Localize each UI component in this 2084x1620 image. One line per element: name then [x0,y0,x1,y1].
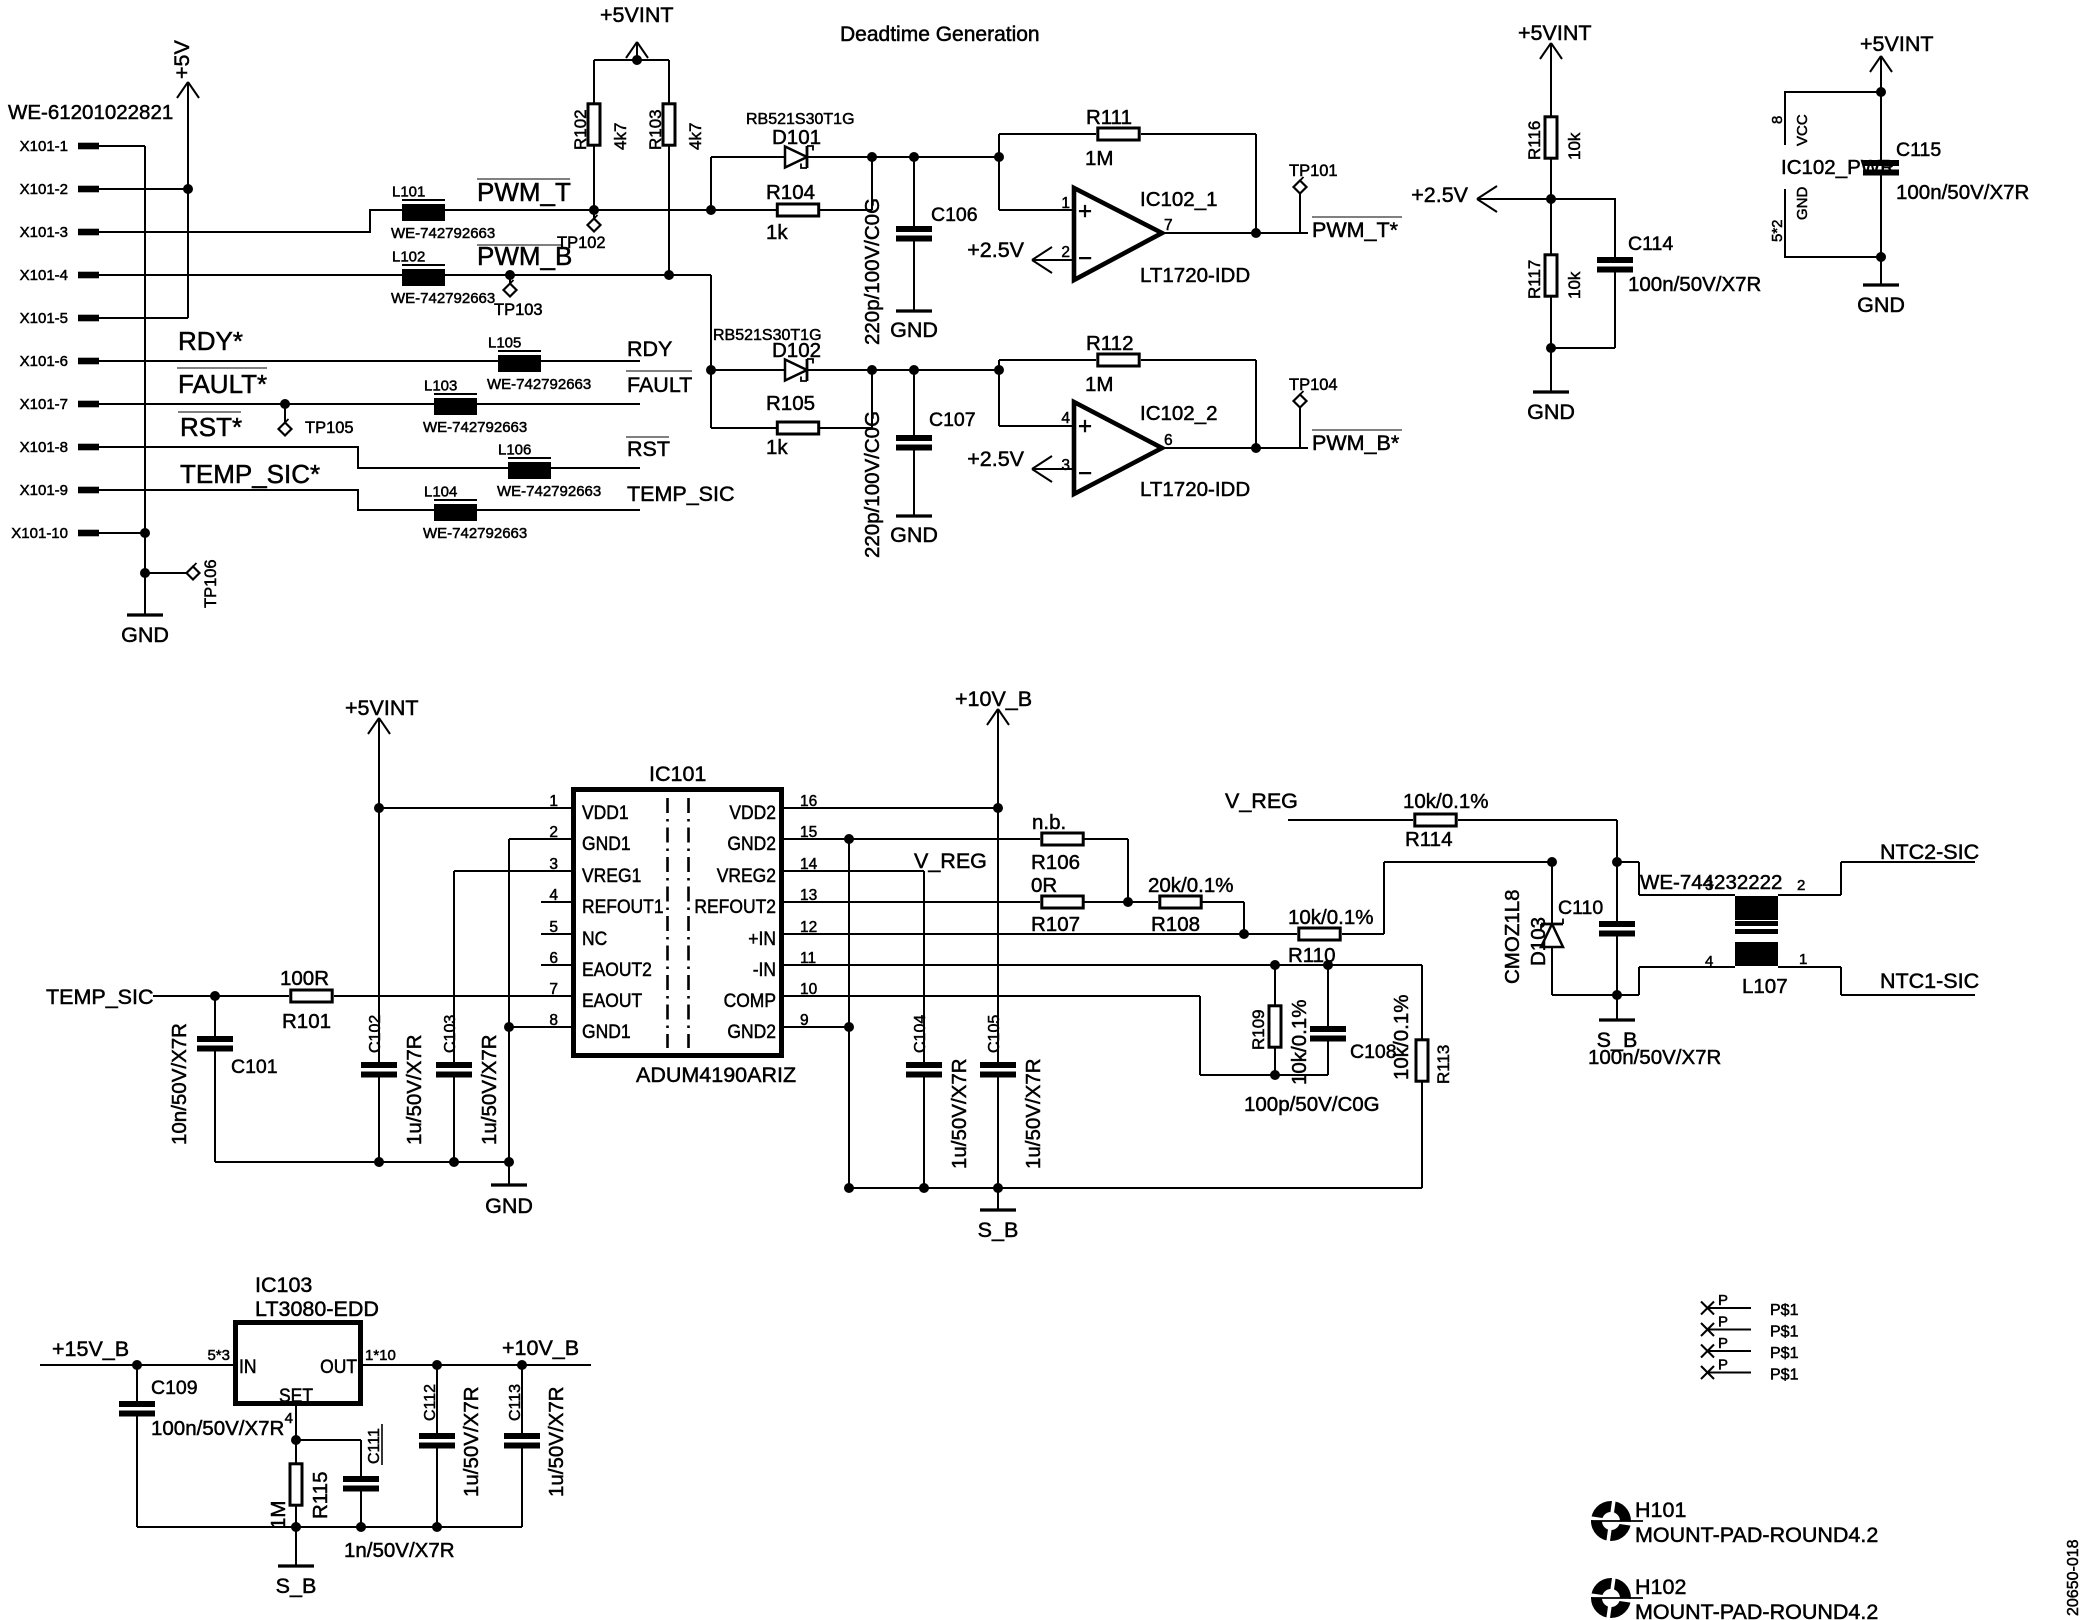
svg-text:V_REG: V_REG [914,849,987,873]
wire R110 up to sense rail [1342,862,1552,934]
svg-text:WE-742792663: WE-742792663 [391,290,495,307]
junction TP103 on PWM_B [505,270,515,280]
wire X101-1 to bus [99,145,145,147]
svg-text:20650-018: 20650-018 [2065,1539,2082,1616]
svg-text:X101-3: X101-3 [20,224,68,241]
svg-text:GND2: GND2 [727,834,776,855]
op-amp IC102_2 LT1720-IDD [1061,402,1250,501]
svg-text:VREG1: VREG1 [582,866,641,887]
test point TP101 [1289,162,1338,233]
svg-text:L104: L104 [424,484,457,501]
junction D103 on rail [1547,857,1557,867]
svg-text:IN: IN [239,1357,257,1378]
svg-text:X101-2: X101-2 [20,181,68,198]
net label TEMP_SIC out [627,482,735,506]
svg-text:10n/50V/X7R: 10n/50V/X7R [168,1023,191,1145]
wire pin11 -IN [784,964,1422,966]
junction VCC pin [1876,87,1886,97]
wire pin2 GND1 [509,838,571,840]
svg-text:TP104: TP104 [1289,376,1338,394]
junction GND pin node [1876,252,1886,262]
resistor R108 20k/0.1% [1148,874,1233,936]
IC102 power gate GND pin 5*2 [1769,187,1881,258]
wire to +input IC102_1 [999,157,1074,210]
wire S_B bus [849,1187,1422,1189]
svg-text:n.b.: n.b. [1032,811,1066,834]
svg-text:L103: L103 [424,378,457,395]
label ADUM4190ARIZ [636,1063,796,1087]
capacitor C104 1u/50V/X7R [906,871,971,1188]
wire pin14 VREG2 [784,870,924,872]
resistor R109 10k/0.1% [1249,965,1311,1085]
svg-text:GND: GND [890,523,938,547]
resistor R105 1k [711,392,819,459]
junction C105 bus [993,1183,1003,1193]
svg-text:LT1720-IDD: LT1720-IDD [1140,264,1250,287]
net label RDY out [627,337,672,361]
junction C103 bus [449,1157,459,1167]
wire L107 bottom pin4 [1617,967,1735,995]
isolation dash-dot lines [668,798,689,1048]
mount pad H102 [1589,1575,1878,1620]
ground GND under connector [121,573,169,647]
capacitor C105 1u/50V/X7R [980,808,1045,1188]
wire X101-3 to L101 with step [99,210,402,232]
ground S_B under IC103 [276,1527,317,1598]
svg-text:GND: GND [1794,187,1811,221]
svg-text:C109: C109 [151,1377,198,1399]
svg-text:H101: H101 [1635,1498,1686,1522]
junction pin1 +5VINT [374,803,384,813]
svg-text:1M: 1M [1085,147,1113,170]
wire output IC102_1 [1162,232,1308,234]
svg-text:R104: R104 [766,181,815,204]
ground GND under C107 [890,516,938,547]
test point TP103 [494,275,543,319]
capacitor C103 1u/50V/X7R [436,871,501,1162]
svg-text:R116: R116 [1525,121,1544,160]
doc number 20650-018 [2065,1539,2082,1616]
svg-text:C106: C106 [931,204,978,226]
net label PWM_B with overline [477,241,572,271]
svg-text:S_B: S_B [276,1574,317,1598]
svg-text:R115: R115 [309,1472,332,1520]
net label TEMP_SIC* [180,459,320,489]
resistor R110 10k/0.1% [1288,906,1373,967]
svg-text:+: + [1078,198,1092,225]
svg-text:0R: 0R [1031,874,1057,897]
net label +10V_B out [502,1336,579,1360]
junction R106/R107 [1123,897,1133,907]
net label V_REG right [1225,789,1298,813]
power +2.5V arrow to -input ch2 [967,447,1074,482]
svg-text:C102: C102 [367,1015,384,1053]
junction feedback output ch1 [1251,228,1261,238]
svg-text:C113: C113 [507,1384,524,1421]
svg-text:R107: R107 [1031,913,1080,936]
svg-text:1u/50V/X7R: 1u/50V/X7R [460,1386,483,1497]
pad pin P row 2 [1701,1314,1799,1341]
svg-text:C111: C111 [366,1428,383,1464]
svg-text:1: 1 [1061,195,1070,212]
svg-text:SET: SET [279,1386,313,1407]
svg-text:TP106: TP106 [202,559,220,608]
svg-text:+5VINT: +5VINT [1860,32,1934,56]
ferrite bead L104 WE-742792663 [423,484,527,543]
ferrite bead L102 WE-742792663 [391,249,495,308]
junction R109 bottom [1270,1070,1280,1080]
svg-text:X101-6: X101-6 [20,353,68,370]
junction GND node [140,568,150,578]
test point TP106 [145,559,220,608]
svg-text:20k/0.1%: 20k/0.1% [1148,874,1233,897]
junction step-up on PWM_T [706,205,716,215]
bus wire from X101-1 down to GND node [144,146,146,573]
junction divider bottom [1546,343,1556,353]
wire pin15 GND2 [784,838,1040,840]
svg-text:+2.5V: +2.5V [1411,183,1468,207]
capacitor C102 1u/50V/X7R [361,808,426,1162]
svg-text:+10V_B: +10V_B [955,687,1032,711]
svg-text:S_B: S_B [978,1218,1019,1242]
net label FAULT* with overline [177,368,267,399]
svg-text:P$1: P$1 [1770,1324,1799,1341]
svg-text:4: 4 [1705,953,1713,970]
wire V_REG to R114 [1288,819,1413,821]
svg-text:−: − [1078,245,1092,272]
svg-text:GND: GND [890,318,938,342]
resistor R102 4k7 [571,60,630,210]
svg-text:10k: 10k [1565,132,1584,160]
wire SET down [295,1406,297,1440]
svg-text:WE-61201022821: WE-61201022821 [8,101,173,124]
wire pin13 REFOUT2 [784,901,1040,903]
junction comparator node ch2 [994,365,1004,375]
wire pin7 EAOUT / TEMP_SIC [153,995,571,997]
junction +2.5V node [1546,194,1556,204]
svg-text:GND: GND [1857,293,1905,317]
svg-text:COMP: COMP [724,991,776,1012]
ground S_B under IC101 [978,1188,1019,1242]
svg-text:Deadtime Generation: Deadtime Generation [840,23,1040,46]
ferrite bead L101 WE-742792663 [391,184,495,243]
svg-text:C115: C115 [1896,139,1941,161]
wire GND1 vertical [508,839,510,1162]
svg-text:X101-1: X101-1 [20,138,68,155]
svg-text:FAULT*: FAULT* [178,369,267,399]
wire comp rail [1200,1074,1328,1076]
junction comparator node ch1 [994,152,1004,162]
wire L107 pin2 to NTC2-SIC [1778,862,1975,895]
diode D102 RB521S30T1G [711,327,822,381]
IC IC103 box [236,1323,361,1404]
wire PWM_T from L101 to R104 [445,209,776,211]
pad pin P row 4 [1701,1357,1799,1384]
svg-text:1u/50V/X7R: 1u/50V/X7R [545,1386,568,1497]
junction pin8 on GND1 vertical [504,1022,514,1032]
svg-text:+5V: +5V [170,39,194,79]
capacitor C110 100n/50V/X7R [1558,862,1721,1069]
svg-text:IC102_1: IC102_1 [1140,188,1218,211]
svg-text:IC102_PWR: IC102_PWR [1781,156,1895,179]
svg-text:+2.5V: +2.5V [967,447,1024,471]
net label NTC2-SIC [1880,840,1979,864]
svg-text:100n/50V/X7R: 100n/50V/X7R [1896,181,2029,204]
svg-text:X101-4: X101-4 [20,267,68,284]
svg-text:5*2: 5*2 [1769,219,1786,242]
net label +15V_B [52,1337,129,1361]
svg-text:+5VINT: +5VINT [600,3,674,27]
net label FAULT out with overline [626,371,692,397]
mount pad H101 [1589,1498,1878,1547]
svg-text:X101-10: X101-10 [11,525,68,542]
junction R108 on +IN [1239,929,1249,939]
junction R109 top [1270,960,1280,970]
resistor R103 4k7 [646,60,705,275]
wire D102 cathode to node [807,369,999,371]
power +5V arrow [170,39,199,318]
junction pin9 [844,1022,854,1032]
wire pin9 GND2 [784,1026,849,1028]
svg-text:REFOUT2: REFOUT2 [694,897,776,918]
IC101 right pin names and numbers [694,793,817,1043]
ground GND under IC101 [485,1162,533,1218]
capacitor C107 220p/100V/C0G [861,370,976,558]
svg-text:GND: GND [121,623,169,647]
junction C109 tap [132,1360,142,1370]
svg-text:REFOUT1: REFOUT1 [582,897,664,918]
svg-text:PWM_B*: PWM_B* [1312,431,1400,455]
capacitor C112 1u/50V/X7R [419,1365,483,1527]
svg-text:RDY*: RDY* [178,326,243,356]
stub pin6 EAOUT2 [541,964,571,966]
svg-text:MOUNT-PAD-ROUND4.2: MOUNT-PAD-ROUND4.2 [1635,1523,1878,1547]
svg-text:R111: R111 [1086,106,1132,129]
junction C106 tap [909,152,919,162]
svg-text:1*10: 1*10 [365,1347,396,1364]
junction C110 on rail [1612,857,1622,867]
svg-text:CMOZ1L8: CMOZ1L8 [1501,889,1524,984]
capacitor C114 100n/50V/X7R [1551,199,1761,348]
net label RST* with overline [178,412,242,442]
connector pin X101-7 stub and label [20,396,99,413]
junction C104 bus [919,1183,929,1193]
svg-text:+15V_B: +15V_B [52,1337,129,1361]
title Deadtime Generation [840,23,1040,46]
svg-text:100n/50V/X7R: 100n/50V/X7R [151,1417,284,1440]
svg-text:100p/50V/C0G: 100p/50V/C0G [1244,1093,1380,1116]
svg-text:C110: C110 [1558,897,1603,919]
junction C113 top [517,1360,527,1370]
junction pin16 +10V_B [993,803,1003,813]
capacitor C101 10n/50V/X7R [168,996,278,1162]
svg-text:L106: L106 [498,442,531,459]
junction bus left [844,1183,854,1193]
svg-text:L101: L101 [392,184,425,201]
wire X101-8 RST with step down [99,447,640,468]
junction R115 bus [291,1522,301,1532]
svg-text:TP102: TP102 [557,234,606,252]
svg-text:P$1: P$1 [1770,1302,1799,1319]
svg-text:RST*: RST* [180,412,242,442]
svg-text:L107: L107 [1742,975,1788,998]
capacitor C111 1n/50V/X7R [296,1424,455,1562]
svg-text:C105: C105 [986,1015,1003,1053]
op-amp IC102_1 LT1720-IDD [1061,188,1250,287]
svg-text:10k/0.1%: 10k/0.1% [1403,790,1488,813]
svg-text:VDD2: VDD2 [729,803,776,824]
connector pin X101-10 stub and label [11,525,99,542]
wire R114 to rail [1458,820,1617,862]
pin label SET 4 [279,1386,313,1427]
svg-text:IC103: IC103 [255,1273,312,1297]
svg-text:WE-742792663: WE-742792663 [423,525,527,542]
stub pin4 REFOUT1 [541,901,571,903]
net label PWM_T* with overline [1312,217,1402,242]
svg-text:10k/0.1%: 10k/0.1% [1390,995,1413,1080]
svg-text:R106: R106 [1031,851,1080,874]
svg-text:S_B: S_B [1597,1028,1638,1052]
power +2.5V arrow to -input ch1 [967,238,1074,273]
svg-text:100R: 100R [280,967,329,990]
connector pin X101-4 stub and label [20,267,99,284]
svg-text:5*3: 5*3 [207,1347,230,1364]
zener diode D103 CMOZ1L8 [1501,862,1617,995]
svg-text:−: − [1078,460,1092,487]
svg-text:EAOUT2: EAOUT2 [582,960,652,981]
svg-text:R105: R105 [766,392,815,415]
test point TP104 [1289,376,1338,448]
net label RST out with overline [626,437,670,461]
svg-text:VREG2: VREG2 [717,866,776,887]
svg-text:V_REG: V_REG [1225,789,1298,813]
svg-text:X101-8: X101-8 [20,439,68,456]
svg-text:NC: NC [582,929,607,950]
svg-text:6: 6 [1164,432,1173,449]
net label PWM_B* with overline [1312,430,1402,455]
svg-text:+5VINT: +5VINT [1518,21,1592,45]
net label TEMP_SIC at IC101 [46,985,154,1009]
svg-text:TP103: TP103 [494,301,543,319]
wire X101-6 RDY to end [99,360,640,362]
connector pin X101-3 stub and label [20,224,99,241]
svg-text:P$1: P$1 [1770,1367,1799,1384]
svg-text:TP101: TP101 [1289,162,1338,180]
svg-text:R102: R102 [571,109,590,150]
svg-text:C103: C103 [442,1015,459,1053]
svg-text:VCC: VCC [1794,114,1811,146]
svg-text:TEMP_SIC: TEMP_SIC [46,985,154,1009]
svg-text:ADUM4190ARIZ: ADUM4190ARIZ [636,1063,796,1087]
svg-text:GND1: GND1 [582,834,631,855]
wire OUT to +10V_B [363,1364,591,1366]
junction pin15 vertical [844,834,854,844]
svg-text:R103: R103 [646,109,665,150]
svg-text:WE-742792663: WE-742792663 [487,376,591,393]
IC IC101 box [574,790,782,1056]
svg-text:2: 2 [1797,877,1805,894]
connector pin X101-5 stub and label [20,310,99,327]
svg-text:4: 4 [1061,410,1070,427]
wire pin8 GND1 [509,1026,571,1028]
power +5VINT arrow (IC102_PWR) [1860,32,1934,92]
svg-text:FAULT: FAULT [627,373,692,397]
label IC101 [649,762,706,786]
stub pin5 NC [541,933,571,935]
svg-text:D102: D102 [772,339,821,362]
wire top rail R102-R103 [594,59,669,61]
svg-text:WE-742792663: WE-742792663 [497,483,601,500]
junction R103 on PWM_B [664,270,674,280]
resistor R117 10k [1525,199,1584,348]
svg-text:PWM_T*: PWM_T* [1312,218,1399,242]
svg-text:PWM_T: PWM_T [477,177,571,207]
wire X101-2 to +5V [99,188,188,190]
svg-text:7: 7 [1164,217,1173,234]
test point TP102 [557,210,606,252]
net label NTC1-SIC [1880,969,1979,993]
svg-text:WE-742792663: WE-742792663 [391,225,495,242]
svg-text:+2.5V: +2.5V [967,238,1024,262]
svg-text:C107: C107 [929,409,976,431]
svg-text:LT1720-IDD: LT1720-IDD [1140,478,1250,501]
power +10V_B arrow [955,687,1032,808]
resistor R114 10k/0.1% [1403,790,1488,851]
svg-text:1n/50V/X7R: 1n/50V/X7R [344,1539,455,1562]
resistor R104 1k [766,181,819,244]
diode D101 RB521S30T1G [711,111,855,168]
resistor R107 0R [1031,874,1083,936]
ferrite bead L105 WE-742792663 [487,335,591,394]
resistor R101 100R [280,967,332,1033]
svg-text:220p/100V/C0G: 220p/100V/C0G [861,411,884,558]
wire X101-5 to +5V line end [99,317,188,319]
svg-text:L105: L105 [488,335,521,352]
IC102 power gate VCC pin 8 [1769,92,1881,146]
wire R104 to riser [820,157,872,210]
svg-text:GND1: GND1 [582,1022,631,1043]
junction C112 bus [432,1522,442,1532]
svg-text:X101-9: X101-9 [20,482,68,499]
svg-text:220p/100V/C0G: 220p/100V/C0G [861,198,884,345]
svg-text:RST: RST [627,437,670,461]
junction +5VINT top rail [632,55,642,65]
svg-text:1u/50V/X7R: 1u/50V/X7R [948,1058,971,1169]
svg-text:GND2: GND2 [727,1022,776,1043]
svg-text:10k/0.1%: 10k/0.1% [1288,906,1373,929]
svg-text:P: P [1718,1314,1728,1331]
ground GND under C115 [1857,257,1905,317]
svg-text:OUT: OUT [320,1357,357,1378]
junction SET node [291,1435,301,1445]
svg-text:L102: L102 [392,249,425,266]
svg-text:TEMP_SIC: TEMP_SIC [627,482,735,506]
label IC102_PWR [1781,156,1895,179]
svg-text:P: P [1718,1335,1728,1352]
connector pin X101-1 stub and label [20,138,99,155]
wire output IC102_2 [1162,447,1308,449]
svg-text:8: 8 [1769,116,1786,124]
net label RDY* [178,326,243,356]
wire X101-9 TEMP_SIC with step down [99,490,640,510]
svg-text:NTC2-SIC: NTC2-SIC [1880,840,1979,864]
svg-text:2: 2 [1061,244,1070,261]
connector pin X101-2 stub and label [20,181,99,198]
svg-text:1: 1 [1799,951,1807,968]
power +5VINT arrow (IC101) [345,696,419,808]
ferrite bead L103 WE-742792663 [423,378,527,437]
resistor R115 1M [267,1440,332,1529]
